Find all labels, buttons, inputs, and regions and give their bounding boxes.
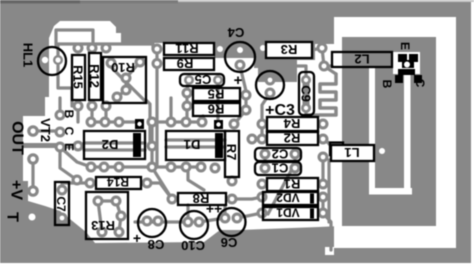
svg-text:T: T	[4, 212, 21, 222]
LED HL1	[38, 47, 66, 75]
transistor VT1 pad area	[393, 52, 420, 74]
svg-text:R2: R2	[284, 131, 301, 146]
inductor L2 box	[332, 52, 392, 67]
svg-text:B: B	[380, 80, 394, 89]
wire OUT bar	[24, 143, 60, 148]
svg-text:R14: R14	[107, 175, 129, 189]
wire R6 to square	[236, 110, 246, 122]
svg-text:++: ++	[206, 201, 222, 217]
wire row122 b	[152, 120, 202, 123]
wire R11 R9 left pads	[155, 49, 158, 64]
svg-text:+V: +V	[8, 180, 25, 200]
capacitor C4	[225, 42, 255, 72]
capacitor C7	[55, 182, 69, 225]
svg-text:C5: C5	[195, 72, 212, 87]
wire VD1 to tab	[323, 213, 331, 250]
resistor R2	[267, 132, 318, 145]
wire R14 to R8	[147, 183, 172, 199]
antenna L1 gray block	[342, 37, 436, 226]
svg-text:+: +	[234, 72, 243, 89]
antenna slot bottom	[369, 188, 412, 195]
wire D2 interior a	[84, 141, 145, 144]
resistor R12	[89, 53, 101, 100]
board outline left section	[23, 21, 340, 243]
meander inductor trace	[320, 74, 336, 115]
resistor R13	[86, 192, 128, 239]
wire R12 bottom	[90, 106, 93, 122]
svg-text:C1: C1	[272, 161, 289, 176]
resistor R14	[96, 177, 141, 189]
wire R13 internal	[98, 201, 121, 232]
resistor R5	[193, 88, 240, 101]
resistor R1	[267, 178, 318, 191]
wire C9 bottom to meander	[306, 108, 320, 115]
resistor R15	[72, 55, 85, 100]
resistor R3	[266, 42, 312, 58]
svg-text:HL1: HL1	[21, 43, 36, 68]
wire C4 down	[240, 66, 246, 110]
wire C6 to VD1	[237, 213, 262, 218]
wire C2 C1	[265, 154, 295, 168]
small tab bottom	[325, 247, 334, 255]
wire left col stack	[260, 124, 263, 139]
svg-text:C: C	[62, 127, 76, 136]
dark top strip left	[0, 0, 80, 4]
svg-text:R4: R4	[283, 116, 300, 131]
capacitor C8	[138, 209, 166, 237]
wire bump loop	[56, 30, 93, 45]
wire D1 interior a	[166, 138, 225, 141]
wire R3 to L2	[312, 48, 336, 74]
wire stack diagonal	[268, 167, 293, 214]
transistor VT1 pad bottom right	[414, 75, 422, 83]
svg-text:R1: R1	[284, 177, 301, 192]
black square pad left	[135, 119, 144, 129]
svg-text:+: +	[133, 230, 141, 246]
white dot pads	[29, 45, 386, 221]
diode VD1	[263, 207, 318, 220]
diode D1 band	[215, 133, 223, 158]
svg-text:R5: R5	[208, 87, 225, 102]
wire C7 bottom	[36, 216, 62, 218]
wire right col VD	[321, 197, 324, 213]
svg-text:C: C	[413, 79, 427, 88]
wire vertical x152	[150, 122, 153, 167]
wire misc 152	[155, 172, 172, 199]
wire misc 171	[188, 168, 204, 190]
svg-text:R10: R10	[111, 60, 135, 75]
resistor R11	[164, 43, 214, 55]
wire C8 C10	[135, 205, 225, 222]
transistor VT1 pad top right	[409, 54, 418, 62]
wire OUT pad to VT2	[33, 98, 91, 191]
transistor VT1 body bar	[398, 69, 415, 75]
resistor R6	[193, 103, 240, 116]
capacitor C3	[256, 71, 284, 99]
svg-text:R6: R6	[208, 102, 225, 117]
capacitor C10	[180, 211, 208, 239]
capacitor C9	[299, 72, 314, 115]
wire R10 diagonal	[108, 64, 146, 102]
wire D1 interior b	[166, 145, 225, 148]
svg-text:VD1: VD1	[276, 206, 300, 220]
diode VD1 band	[310, 209, 314, 219]
resistor R7	[225, 131, 239, 177]
pads row top	[27, 43, 329, 238]
wire R5 left column	[185, 93, 188, 122]
transistor VT1 pad top left	[398, 54, 407, 62]
transistor VT1 center hole	[404, 62, 410, 68]
transistor VT1 pad bottom left	[395, 75, 403, 83]
black square pad	[214, 120, 223, 129]
svg-text:R13: R13	[91, 218, 115, 233]
wire C5 left	[187, 80, 188, 93]
wire C9 interior	[303, 80, 310, 108]
dark top strip mid	[80, 0, 178, 4]
diode D2 band	[133, 133, 141, 157]
wire R15 bottom	[76, 106, 79, 122]
svg-text:OUT: OUT	[9, 121, 26, 155]
svg-text:B: B	[62, 110, 76, 119]
wire C9 top	[296, 66, 306, 80]
svg-text:C10: C10	[181, 238, 205, 253]
svg-text:D1: D1	[184, 137, 201, 152]
svg-text:VD2: VD2	[276, 191, 300, 205]
wire right vertical	[323, 137, 331, 222]
wire C7 top	[62, 183, 90, 190]
wire R12b bottom	[104, 106, 107, 122]
wire top edge	[58, 44, 153, 49]
wire R10 exit verticals	[146, 64, 218, 168]
wire R8 right	[232, 197, 262, 199]
capacitor C5	[180, 74, 224, 86]
svg-text:C8: C8	[148, 237, 165, 252]
pad square L1 link	[330, 143, 343, 156]
svg-text:C2: C2	[272, 147, 289, 162]
svg-text:E: E	[398, 42, 412, 50]
wire row122 a	[91, 120, 135, 123]
svg-text:E: E	[62, 143, 76, 151]
antenna slot A	[369, 67, 375, 194]
wire row166 long	[91, 165, 201, 168]
resistor R4	[267, 117, 318, 131]
svg-text:C7: C7	[54, 196, 68, 212]
svg-text:C6: C6	[221, 235, 238, 250]
svg-text:R3: R3	[281, 42, 298, 57]
capacitor C6	[218, 208, 246, 236]
diode VD2	[263, 192, 318, 205]
diode D1	[166, 131, 225, 160]
light top row right	[178, 0, 474, 2]
inductor L1 box	[331, 145, 374, 161]
wire D2 interior b	[84, 148, 145, 151]
wire R10 diagonal 2	[117, 62, 140, 97]
board outline right section	[334, 17, 456, 248]
resistor R8	[178, 193, 226, 205]
resistor R9	[164, 58, 214, 70]
svg-text:R12: R12	[87, 64, 102, 88]
svg-text:D2: D2	[102, 137, 119, 152]
transistor VT1 center block	[402, 60, 414, 68]
antenna slot B	[404, 74, 411, 194]
capacitor C2	[255, 148, 301, 161]
svg-text:R11: R11	[175, 41, 198, 56]
gray pour C3 blob	[258, 56, 297, 82]
resistor R10	[103, 57, 146, 103]
svg-text:L2: L2	[354, 52, 369, 67]
svg-text:R15: R15	[71, 65, 86, 89]
pad holes	[30, 46, 326, 235]
svg-text:R9: R9	[177, 56, 194, 71]
diode VD2 band	[310, 194, 314, 204]
svg-text:C4: C4	[227, 25, 244, 40]
diode D2	[84, 131, 145, 159]
wire HL1 down	[58, 46, 72, 106]
svg-text:C9: C9	[299, 85, 314, 102]
capacitor C1	[255, 162, 301, 175]
svg-text:VT2: VT2	[38, 118, 53, 142]
wire C3 bottom	[262, 93, 270, 124]
svg-text:R7: R7	[224, 144, 239, 161]
svg-text:L1: L1	[344, 145, 359, 160]
